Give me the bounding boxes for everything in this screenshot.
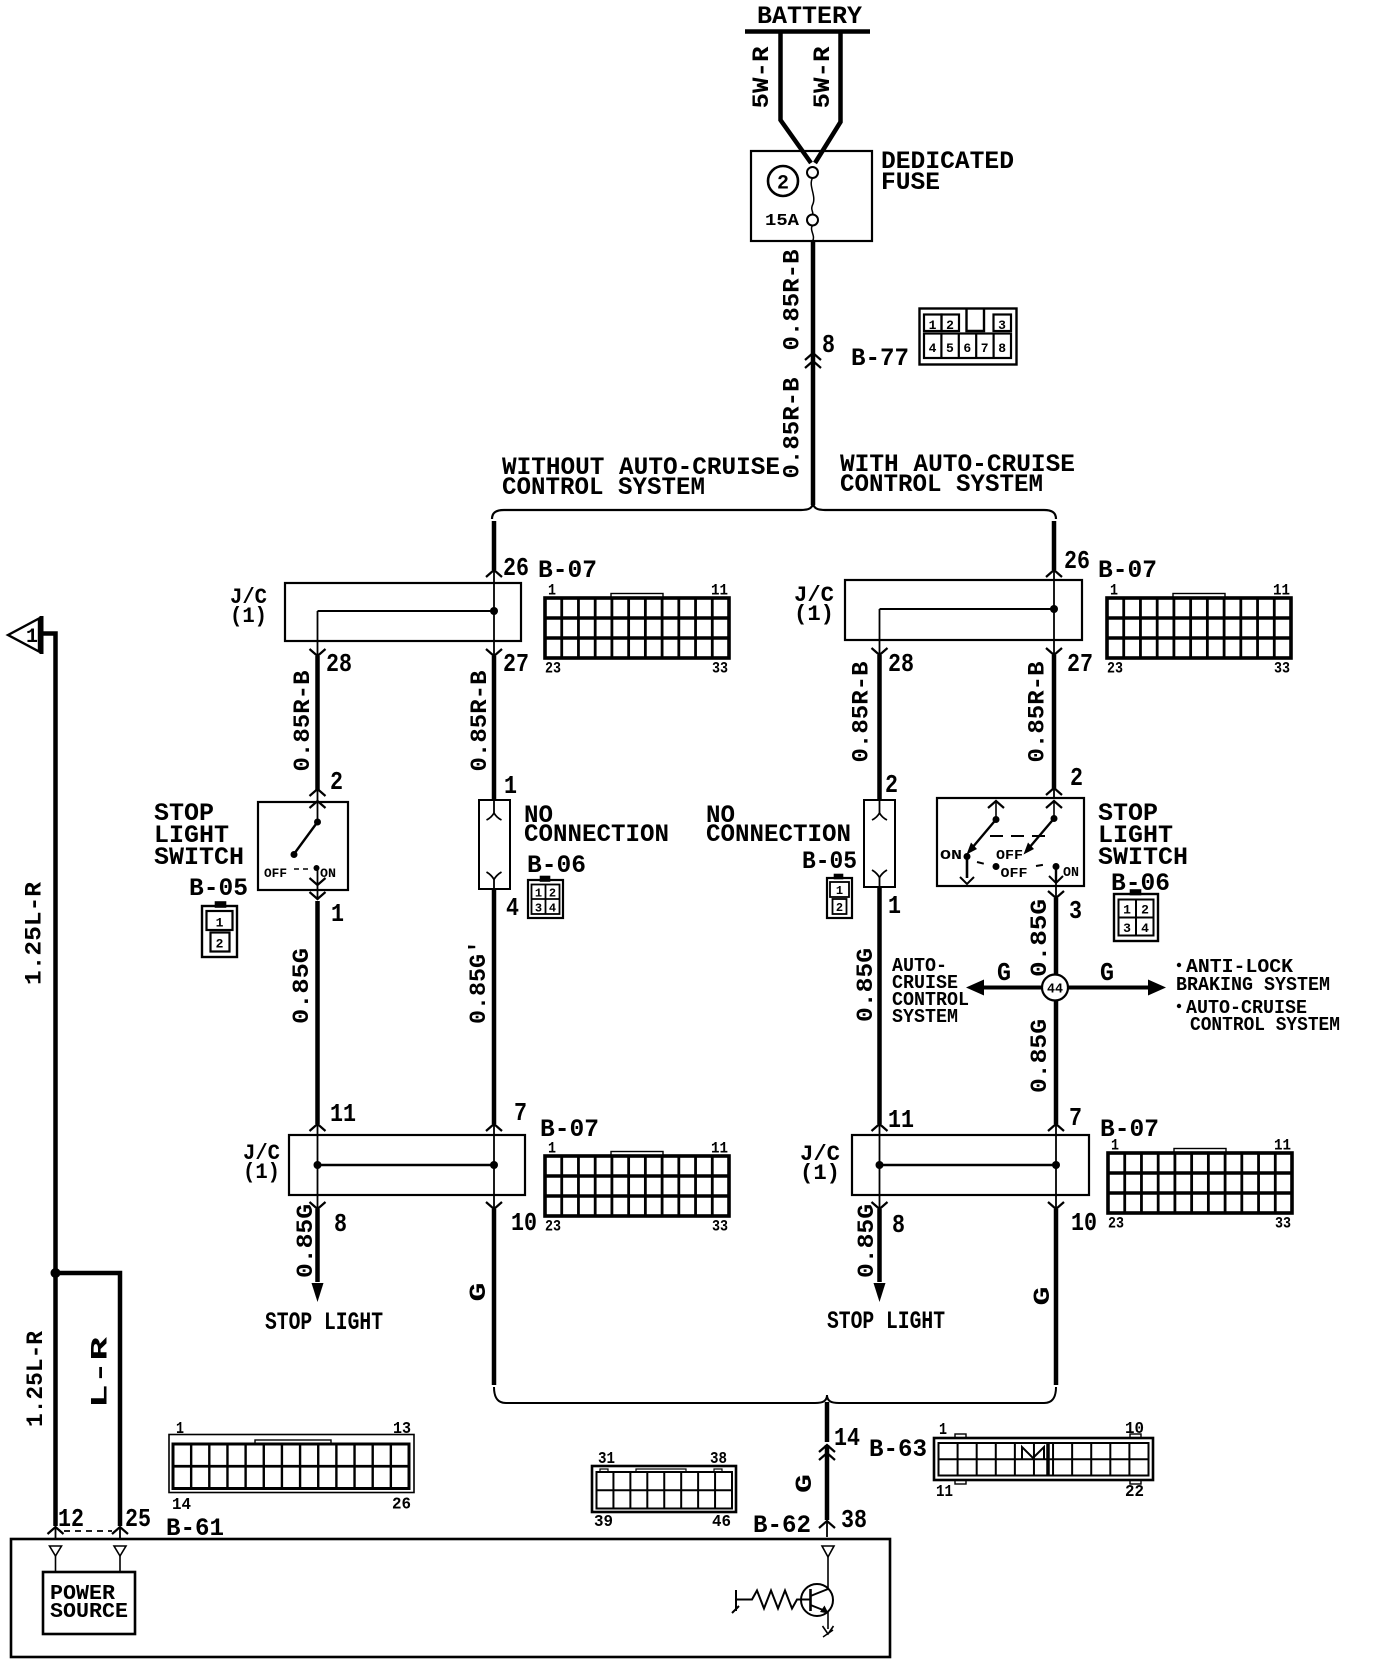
svg-text:2: 2	[549, 887, 556, 901]
svg-text:23: 23	[545, 1218, 561, 1236]
svg-text:8: 8	[822, 330, 835, 360]
svg-text:27: 27	[503, 649, 529, 679]
svg-text:31: 31	[598, 1450, 615, 1469]
svg-text:STOP LIGHT: STOP LIGHT	[265, 1308, 383, 1337]
svg-text:G: G	[792, 1474, 818, 1493]
svg-text:2: 2	[836, 901, 843, 915]
svg-text:CONNECTION: CONNECTION	[706, 820, 851, 849]
svg-text:(1): (1)	[230, 604, 267, 629]
svg-text:(1): (1)	[800, 1161, 840, 1186]
svg-text:26: 26	[503, 553, 529, 583]
svg-text:26: 26	[392, 1496, 411, 1515]
svg-text:10: 10	[1125, 1420, 1144, 1439]
svg-text:11: 11	[1274, 1137, 1291, 1155]
svg-text:44: 44	[1047, 982, 1063, 998]
svg-text:G: G	[1100, 958, 1114, 988]
svg-text:7: 7	[514, 1098, 527, 1128]
svg-text:27: 27	[1067, 649, 1093, 679]
svg-text:1: 1	[888, 891, 901, 921]
svg-text:11: 11	[936, 1483, 953, 1502]
svg-text:ON: ON	[1063, 865, 1079, 881]
svg-text:OFF: OFF	[1001, 866, 1028, 882]
svg-text:0.85R-B: 0.85R-B	[290, 670, 316, 771]
svg-text:3: 3	[1069, 896, 1082, 926]
svg-text:7: 7	[1069, 1103, 1082, 1133]
svg-text:1.25L-R: 1.25L-R	[23, 1331, 49, 1427]
svg-text:G: G	[997, 958, 1011, 988]
svg-text:26: 26	[1064, 546, 1090, 576]
svg-text:11: 11	[711, 582, 728, 600]
svg-text:SOURCE: SOURCE	[50, 1601, 128, 1624]
svg-text:11: 11	[711, 1140, 728, 1158]
svg-text:1: 1	[939, 1421, 947, 1440]
svg-text:B-05: B-05	[802, 847, 857, 876]
svg-text:(1): (1)	[243, 1160, 280, 1185]
svg-text:(1): (1)	[794, 602, 834, 627]
svg-text:1: 1	[1123, 903, 1131, 918]
svg-text:5: 5	[946, 341, 954, 356]
svg-text:0.85R-B: 0.85R-B	[849, 661, 875, 762]
svg-text:FUSE: FUSE	[881, 168, 940, 197]
svg-text:L-R: L-R	[88, 1337, 114, 1408]
svg-text:CONTROL SYSTEM: CONTROL SYSTEM	[1190, 1014, 1340, 1036]
svg-text:0.85R-B: 0.85R-B	[780, 249, 806, 350]
svg-text:28: 28	[326, 649, 352, 679]
svg-text:0.85R-B: 0.85R-B	[1025, 661, 1051, 762]
svg-text:BRAKING SYSTEM: BRAKING SYSTEM	[1176, 974, 1330, 996]
svg-text:5W-R: 5W-R	[749, 46, 775, 108]
svg-text:0.85R-B: 0.85R-B	[467, 670, 493, 771]
svg-text:BATTERY: BATTERY	[757, 2, 862, 31]
svg-text:B-63: B-63	[869, 1435, 927, 1464]
svg-text:1: 1	[26, 626, 38, 649]
svg-text:B-05: B-05	[189, 874, 248, 903]
svg-text:2: 2	[1141, 903, 1149, 918]
svg-text:33: 33	[712, 660, 728, 678]
svg-text:25: 25	[125, 1504, 151, 1534]
svg-text:0.85G': 0.85G'	[466, 940, 492, 1024]
svg-text:4: 4	[506, 893, 519, 923]
svg-text:23: 23	[1107, 660, 1123, 678]
svg-text:OFF: OFF	[996, 848, 1023, 864]
svg-text:2: 2	[885, 770, 898, 800]
svg-text:1.25L-R: 1.25L-R	[22, 882, 48, 985]
svg-text:G: G	[466, 1283, 492, 1302]
svg-text:1: 1	[176, 1420, 184, 1439]
svg-text:22: 22	[1125, 1483, 1144, 1502]
svg-text:4: 4	[929, 341, 937, 356]
svg-text:38: 38	[841, 1505, 867, 1535]
svg-text:1: 1	[1111, 1137, 1119, 1155]
svg-text:B-07: B-07	[1100, 1115, 1159, 1144]
svg-text:ON: ON	[320, 866, 336, 881]
svg-text:15A: 15A	[765, 212, 800, 231]
svg-text:SYSTEM: SYSTEM	[892, 1006, 958, 1028]
svg-text:0.85G: 0.85G	[293, 1204, 319, 1278]
svg-text:B-62: B-62	[753, 1511, 811, 1540]
svg-text:1: 1	[929, 318, 937, 333]
svg-text:3: 3	[535, 902, 542, 916]
svg-text:2: 2	[216, 937, 224, 952]
svg-text:23: 23	[545, 660, 561, 678]
svg-text:0.85G: 0.85G	[1027, 1019, 1053, 1093]
svg-text:14: 14	[834, 1423, 860, 1453]
svg-text:6: 6	[963, 341, 971, 356]
svg-text:28: 28	[888, 649, 914, 679]
svg-text:7: 7	[981, 341, 989, 356]
svg-text:B-77: B-77	[851, 344, 909, 373]
svg-text:4: 4	[1141, 921, 1149, 936]
svg-text:1: 1	[1110, 582, 1118, 600]
svg-text:B-06: B-06	[527, 851, 586, 880]
svg-text:38: 38	[710, 1450, 727, 1469]
svg-text:33: 33	[1274, 660, 1290, 678]
svg-text:1: 1	[535, 887, 542, 901]
svg-text:1: 1	[504, 771, 517, 801]
svg-text:8: 8	[892, 1210, 905, 1240]
svg-text:CONNECTION: CONNECTION	[524, 820, 669, 849]
svg-text:STOP LIGHT: STOP LIGHT	[827, 1307, 945, 1336]
svg-text:5W-R: 5W-R	[810, 46, 836, 108]
svg-text:3: 3	[1123, 921, 1131, 936]
svg-text:23: 23	[1108, 1215, 1124, 1233]
svg-text:46: 46	[712, 1513, 731, 1532]
svg-text:0.85G: 0.85G	[1027, 899, 1053, 977]
svg-text:0.85G: 0.85G	[289, 948, 315, 1024]
svg-text:4: 4	[549, 902, 556, 916]
svg-text:2: 2	[330, 767, 343, 797]
svg-text:8: 8	[998, 341, 1006, 356]
svg-text:1: 1	[331, 899, 344, 929]
svg-text:CONTROL SYSTEM: CONTROL SYSTEM	[502, 473, 705, 502]
svg-text:3: 3	[998, 318, 1006, 333]
svg-text:G: G	[1030, 1287, 1056, 1306]
svg-text:33: 33	[1275, 1215, 1291, 1233]
svg-text:2: 2	[946, 318, 954, 333]
svg-text:11: 11	[330, 1099, 356, 1129]
svg-text:2: 2	[1070, 763, 1083, 793]
svg-text:OFF: OFF	[264, 866, 287, 881]
svg-text:SWITCH: SWITCH	[154, 843, 244, 872]
svg-text:11: 11	[888, 1105, 914, 1135]
svg-text:SWITCH: SWITCH	[1098, 843, 1188, 872]
svg-text:12: 12	[58, 1504, 84, 1534]
svg-text:8: 8	[334, 1209, 347, 1239]
svg-text:33: 33	[712, 1218, 728, 1236]
svg-text:B-07: B-07	[538, 556, 597, 585]
svg-text:1: 1	[836, 884, 843, 898]
svg-text:0.85G: 0.85G	[854, 1204, 880, 1278]
svg-text:0.85G: 0.85G	[853, 948, 879, 1022]
svg-text:13: 13	[393, 1420, 411, 1439]
svg-text:10: 10	[1071, 1208, 1097, 1238]
svg-text:11: 11	[1273, 582, 1290, 600]
svg-text:1: 1	[548, 582, 556, 600]
svg-text:B-07: B-07	[1098, 556, 1157, 585]
svg-text:1: 1	[216, 916, 224, 931]
svg-text:ON: ON	[940, 848, 962, 864]
svg-text:CONTROL SYSTEM: CONTROL SYSTEM	[840, 470, 1043, 499]
svg-text:1: 1	[548, 1140, 556, 1158]
svg-text:14: 14	[172, 1496, 191, 1515]
svg-text:39: 39	[594, 1513, 613, 1532]
svg-text:0.85R-B: 0.85R-B	[780, 377, 806, 478]
svg-text:2: 2	[777, 173, 789, 196]
svg-text:10: 10	[511, 1208, 537, 1238]
